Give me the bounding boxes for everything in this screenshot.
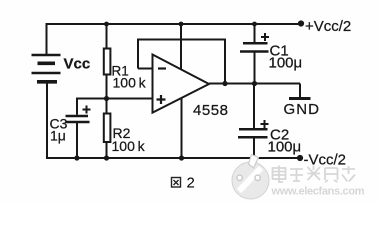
svg-text:GND: GND (284, 101, 320, 118)
svg-text:+Vcc/2: +Vcc/2 (305, 18, 351, 35)
svg-text:Vcc: Vcc (64, 56, 91, 73)
svg-text:1μ: 1μ (50, 128, 66, 144)
svg-text:100μ: 100μ (268, 139, 302, 156)
svg-text:2: 2 (187, 175, 195, 192)
svg-text:4558: 4558 (193, 102, 228, 119)
svg-text:100μ: 100μ (269, 55, 303, 72)
svg-text:100 k: 100 k (113, 75, 147, 91)
svg-text:www.elecfans.com: www.elecfans.com (271, 186, 365, 198)
svg-text:-Vcc/2: -Vcc/2 (304, 152, 347, 169)
svg-text:100 k: 100 k (112, 138, 146, 154)
